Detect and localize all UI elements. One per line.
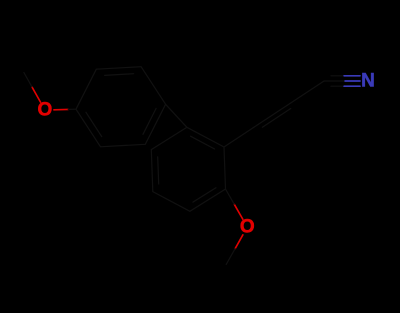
bond O1-ring1 red half — [54, 108, 68, 110]
bond O1-CH3 red half — [32, 87, 41, 102]
C#N outer line bot dark half — [331, 85, 344, 87]
bond O2-ring2 dark half — [226, 189, 235, 204]
bond C2-C1 — [291, 81, 324, 103]
C#N middle line dark half — [324, 80, 345, 82]
bond C3=C2 main line — [257, 103, 290, 125]
svg-text:N: N — [361, 71, 375, 92]
benzene ring 2 (methoxyphenyl, center-bottom) — [151, 127, 225, 211]
bond O1-CH3 dark half — [24, 73, 32, 87]
C3=C2 double-bond second line — [262, 109, 290, 128]
ring1 inner aromatic double-bond lines — [105, 74, 134, 76]
bond O1-ring1 dark half — [68, 108, 76, 110]
bond O2-CH3 dark half — [226, 249, 235, 265]
C#N middle line blue half — [345, 80, 360, 82]
bond ring1-ring2 (biaryl) — [166, 104, 187, 127]
bond ring2-C3 (vinyl) — [224, 125, 257, 147]
bond O2-CH3 red half — [235, 235, 243, 249]
C#N outer line bot blue half — [344, 85, 360, 87]
ring2 inner aromatic double-bond lines — [193, 188, 216, 202]
svg-text:O: O — [38, 100, 53, 121]
C#N outer line top blue half — [344, 75, 360, 77]
C#N outer line top dark half — [331, 75, 344, 77]
benzene ring 1 (4-methoxyphenyl, left) — [76, 67, 166, 147]
svg-text:O: O — [240, 217, 255, 238]
bond O2-ring2 red half — [234, 204, 243, 219]
